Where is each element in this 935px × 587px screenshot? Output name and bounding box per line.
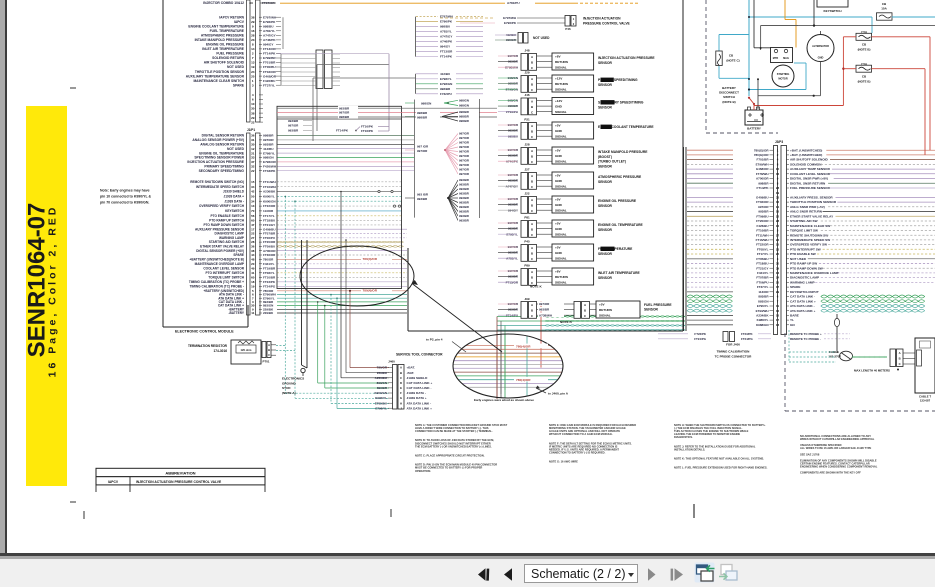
svg-text:B: B bbox=[531, 252, 533, 256]
svg-text:KEYSWITCH: KEYSWITCH bbox=[225, 209, 245, 213]
svg-text:780(4)/OR: 780(4)/OR bbox=[516, 378, 531, 382]
svg-text:F426/BU: F426/BU bbox=[263, 79, 276, 83]
svg-text:NOT USED: NOT USED bbox=[227, 147, 245, 151]
svg-text:36: 36 bbox=[251, 134, 255, 138]
svg-text:OVERSPEED VERIFY SW: OVERSPEED VERIFY SW bbox=[790, 243, 827, 247]
svg-text:+8V: +8V bbox=[555, 270, 562, 274]
svg-text:ANLG SNSR PWR (+5V): ANLG SNSR PWR (+5V) bbox=[790, 205, 825, 209]
svg-text:FT23/PK: FT23/PK bbox=[694, 332, 706, 336]
svg-text:7: 7 bbox=[777, 299, 779, 303]
svg-text:A738/WH: A738/WH bbox=[539, 313, 552, 317]
svg-text:997/OR: 997/OR bbox=[459, 168, 470, 172]
svg-text:GND: GND bbox=[818, 56, 824, 60]
svg-text:+5V: +5V bbox=[555, 222, 562, 226]
svg-text:18: 18 bbox=[776, 323, 780, 327]
svg-text:33: 33 bbox=[249, 1, 253, 5]
svg-text:J1939 DATA -: J1939 DATA - bbox=[224, 199, 244, 203]
svg-text:34: 34 bbox=[251, 185, 255, 189]
svg-text:KEYSWITCH: KEYSWITCH bbox=[824, 9, 842, 13]
svg-text:ALL WIRES TO BE 16 AWG OR LARG: ALL WIRES TO BE 16 AWG OR LARGER SAE J11… bbox=[800, 446, 872, 450]
svg-text:+12V: +12V bbox=[555, 77, 563, 81]
svg-text:9: 9 bbox=[777, 177, 779, 181]
svg-text:MOTOR: MOTOR bbox=[778, 78, 787, 81]
svg-text:1: 1 bbox=[252, 79, 254, 83]
svg-text:+12V: +12V bbox=[555, 99, 563, 103]
svg-text:32: 32 bbox=[251, 165, 255, 169]
svg-text:997/OR: 997/OR bbox=[459, 145, 470, 149]
svg-text:FT16/WH: FT16/WH bbox=[263, 185, 276, 189]
svg-text:SIGNAL: SIGNAL bbox=[555, 66, 567, 70]
svg-text:MAINTENANCE OVERDUE LAMP: MAINTENANCE OVERDUE LAMP bbox=[790, 271, 839, 275]
svg-text:994/GY: 994/GY bbox=[440, 45, 450, 49]
svg-text:56: 56 bbox=[251, 214, 255, 218]
svg-text:27: 27 bbox=[776, 233, 780, 237]
svg-text:B: B bbox=[531, 105, 533, 109]
svg-text:GN: GN bbox=[790, 323, 795, 327]
svg-text:FT23/PK: FT23/PK bbox=[263, 280, 276, 284]
svg-text:SENSOR: SENSOR bbox=[598, 83, 613, 87]
svg-text:GND: GND bbox=[555, 105, 563, 109]
svg-text:SENSOR: SENSOR bbox=[644, 308, 659, 312]
svg-text:4: 4 bbox=[252, 93, 254, 97]
svg-text:41: 41 bbox=[251, 271, 255, 275]
svg-text:MAINTENANCE CLEAR SW: MAINTENANCE CLEAR SW bbox=[790, 224, 830, 228]
svg-text:PTO ENABLE SW: PTO ENABLE SW bbox=[790, 252, 816, 256]
svg-text:B: B bbox=[531, 204, 533, 208]
svg-text:AUXILIARY TEMPERATURE SENSOR: AUXILIARY TEMPERATURE SENSOR bbox=[186, 74, 245, 78]
svg-text:4: 4 bbox=[777, 158, 779, 162]
svg-text:FT02/OR: FT02/OR bbox=[756, 200, 769, 204]
svg-text:pin 10 connected to K990/YL &: pin 10 connected to K990/YL & bbox=[100, 195, 152, 199]
svg-text:NOTE C: PLACE APPROPRIATE CIRC: NOTE C: PLACE APPROPRIATE CIRCUIT PROTEC… bbox=[415, 454, 485, 458]
svg-text:20: 20 bbox=[251, 262, 255, 266]
svg-text:15: 15 bbox=[776, 167, 780, 171]
svg-text:998/BU: 998/BU bbox=[263, 25, 274, 29]
svg-text:SEE SAE J1708: SEE SAE J1708 bbox=[800, 452, 820, 456]
svg-text:INJECTION ACTUATION PRESSURE C: INJECTION ACTUATION PRESSURE CONTROL VAL… bbox=[136, 480, 222, 484]
svg-text:SIGNAL: SIGNAL bbox=[555, 257, 567, 261]
svg-text:SIGNAL: SIGNAL bbox=[555, 185, 567, 189]
svg-text:INTAKE MANIFOLD PRESSURE: INTAKE MANIFOLD PRESSURE bbox=[598, 150, 648, 154]
svg-text:998/GN: 998/GN bbox=[459, 104, 469, 108]
svg-text:A: A bbox=[268, 343, 270, 347]
svg-text:+5V: +5V bbox=[555, 174, 562, 178]
svg-text:PTO RAMP UP SW: PTO RAMP UP SW bbox=[790, 262, 817, 266]
svg-text:K900/YL: K900/YL bbox=[263, 195, 275, 199]
svg-text:DISCONNECT: DISCONNECT bbox=[719, 91, 739, 95]
svg-text:SENSOR: SENSOR bbox=[598, 204, 613, 208]
svg-text:B: B bbox=[899, 357, 901, 361]
svg-text:FT09/BU: FT09/BU bbox=[756, 214, 768, 218]
svg-text:993/BR: 993/BR bbox=[539, 308, 550, 312]
svg-text:E799/WH: E799/WH bbox=[756, 163, 769, 167]
svg-text:FT05/BU: FT05/BU bbox=[756, 257, 768, 261]
svg-text:Early engines were wired as sh: Early engines were wired as shown above bbox=[474, 398, 534, 402]
svg-text:29: 29 bbox=[251, 116, 255, 120]
svg-text:AIR SHUTOFF SOLENOID: AIR SHUTOFF SOLENOID bbox=[790, 158, 829, 162]
svg-text:ANALOG SENSOR RETURN: ANALOG SENSOR RETURN bbox=[200, 143, 244, 147]
svg-text:+BAT.: +BAT. bbox=[407, 366, 416, 370]
svg-text:FT10/BR: FT10/BR bbox=[756, 229, 769, 233]
svg-text:PRIMARY SPEED/TIMING: PRIMARY SPEED/TIMING bbox=[204, 165, 244, 169]
svg-text:997/OR: 997/OR bbox=[459, 172, 470, 176]
svg-text:22: 22 bbox=[251, 169, 255, 173]
svg-text:SENSOR: SENSOR bbox=[598, 61, 613, 65]
svg-text:780(4)/OR: 780(4)/OR bbox=[363, 257, 378, 261]
svg-text:BATTERY: BATTERY bbox=[747, 127, 761, 131]
svg-text:993/BR: 993/BR bbox=[459, 196, 470, 200]
svg-text:COOLANT LEVEL SENSOR: COOLANT LEVEL SENSOR bbox=[790, 172, 831, 176]
svg-text:FT37/YL: FT37/YL bbox=[757, 285, 769, 289]
svg-text:NOTE L: FUEL PRESSURE EXTENSIO: NOTE L: FUEL PRESSURE EXTENSION USED FOR… bbox=[674, 466, 768, 470]
svg-text:+BATTERY (UNSWITCHED)(NOTE B): +BATTERY (UNSWITCHED)(NOTE B) bbox=[190, 257, 244, 261]
svg-text:GND: GND bbox=[555, 203, 563, 207]
svg-text:PTO RAMP DOWN SW: PTO RAMP DOWN SW bbox=[790, 266, 823, 270]
svg-text:F732/PU: F732/PU bbox=[440, 92, 452, 96]
svg-text:INTAKE MANIFOLD PRESSURE: INTAKE MANIFOLD PRESSURE bbox=[195, 38, 245, 42]
svg-text:120 ohm: 120 ohm bbox=[241, 348, 253, 352]
svg-text:FT06/PU: FT06/PU bbox=[756, 281, 768, 285]
svg-text:CONNECTION CAN BE MADE AT THE: CONNECTION CAN BE MADE AT THE STARTER (-… bbox=[415, 429, 493, 433]
svg-text:PT01: PT01 bbox=[263, 360, 270, 364]
svg-text:FUEL PRESSURE: FUEL PRESSURE bbox=[644, 303, 672, 307]
svg-text:TIMING CALIBRATION: TIMING CALIBRATION bbox=[717, 350, 751, 354]
svg-text:993/BR: 993/BR bbox=[459, 183, 470, 187]
svg-text:SECONDARY SPEED/TIMING: SECONDARY SPEED/TIMING bbox=[598, 101, 644, 105]
svg-text:F701/BR: F701/BR bbox=[263, 61, 276, 65]
svg-text:J27: J27 bbox=[524, 168, 529, 172]
svg-text:CONNECTION TO BATTERY (-) IS R: CONNECTION TO BATTERY (-) IS REQUIRED. bbox=[549, 450, 606, 454]
svg-text:FT08/YL: FT08/YL bbox=[757, 247, 769, 251]
svg-text:42: 42 bbox=[251, 190, 255, 194]
svg-text:A: A bbox=[400, 366, 402, 370]
svg-text:ETHER START VALVE RELAY: ETHER START VALVE RELAY bbox=[790, 214, 834, 218]
svg-text:J1939 DATA +: J1939 DATA + bbox=[224, 195, 245, 199]
svg-text:FT11/WH: FT11/WH bbox=[756, 233, 769, 237]
svg-text:997/OR: 997/OR bbox=[459, 159, 470, 163]
svg-text:997/OR: 997/OR bbox=[459, 136, 470, 140]
svg-text:SPARE: SPARE bbox=[790, 285, 800, 289]
svg-text:997/OR: 997/OR bbox=[339, 111, 350, 115]
svg-text:WARNING LAMP: WARNING LAMP bbox=[790, 281, 815, 285]
svg-text:E: E bbox=[400, 386, 402, 390]
svg-text:23: 23 bbox=[251, 38, 255, 42]
svg-text:19: 19 bbox=[251, 65, 255, 69]
svg-text:FT19/BR: FT19/BR bbox=[263, 266, 276, 270]
svg-text:G: G bbox=[400, 396, 402, 400]
svg-text:993/BR: 993/BR bbox=[459, 192, 470, 196]
svg-text:13: 13 bbox=[251, 61, 255, 65]
svg-text:G409/BU: G409/BU bbox=[756, 196, 769, 200]
svg-text:G468/OR: G468/OR bbox=[756, 167, 770, 171]
svg-text:A236/BK: A236/BK bbox=[375, 376, 388, 380]
svg-text:P45: P45 bbox=[524, 240, 530, 244]
svg-text:998/GN: 998/GN bbox=[421, 101, 431, 105]
svg-text:MTR: MTR bbox=[773, 57, 779, 60]
svg-text:16 Page, Color 2, RED: 16 Page, Color 2, RED bbox=[47, 205, 59, 378]
svg-text:REMOTE SHUTDOWN SW: REMOTE SHUTDOWN SW bbox=[790, 233, 828, 237]
svg-text:E796/PK: E796/PK bbox=[263, 20, 276, 24]
svg-text:B: B bbox=[531, 180, 533, 184]
svg-text:FT17/YL: FT17/YL bbox=[263, 214, 275, 218]
svg-text:33: 33 bbox=[776, 196, 780, 200]
svg-text:DIAGNOSTICS.: DIAGNOSTICS. bbox=[674, 435, 693, 439]
svg-text:J99: J99 bbox=[524, 297, 529, 301]
svg-text:TC PROBE CONNECTOR: TC PROBE CONNECTOR bbox=[715, 355, 752, 359]
svg-text:INJECTION ACTUATION PRESSURE: INJECTION ACTUATION PRESSURE bbox=[187, 160, 244, 164]
svg-text:WIRES WITHOUT CATERPILLAR ENGI: WIRES WITHOUT CATERPILLAR ENGINEERING AP… bbox=[800, 437, 875, 441]
svg-text:SOLENOID COMMON: SOLENOID COMMON bbox=[790, 163, 822, 167]
svg-text:997/OR: 997/OR bbox=[459, 154, 470, 158]
svg-text:993/BR: 993/BR bbox=[459, 178, 470, 182]
svg-text:21: 21 bbox=[251, 151, 255, 155]
svg-text:NOTE B: NOTE B bbox=[560, 320, 572, 324]
svg-text:SIGNAL: SIGNAL bbox=[555, 281, 567, 285]
svg-text:E796/PK: E796/PK bbox=[440, 20, 453, 24]
svg-text:997 /OR: 997 /OR bbox=[417, 144, 429, 148]
svg-text:CAT DATA LINK -: CAT DATA LINK - bbox=[790, 295, 815, 299]
svg-text:OPERATION.: OPERATION. bbox=[415, 469, 431, 473]
svg-text:12: 12 bbox=[776, 224, 780, 228]
svg-text:B: B bbox=[531, 83, 533, 87]
svg-text:25: 25 bbox=[251, 74, 255, 78]
svg-text:CAT DATA LINK +: CAT DATA LINK + bbox=[790, 299, 816, 303]
svg-text:48: 48 bbox=[251, 257, 255, 261]
svg-text:C: C bbox=[899, 362, 901, 366]
svg-text:GND: GND bbox=[555, 179, 563, 183]
svg-text:J3/P3: J3/P3 bbox=[775, 140, 784, 144]
svg-text:FT24/PG: FT24/PG bbox=[263, 284, 276, 288]
svg-text:993/BR: 993/BR bbox=[339, 106, 350, 110]
svg-text:MAG: MAG bbox=[783, 57, 789, 60]
svg-text:FT24/PG: FT24/PG bbox=[694, 337, 706, 341]
svg-text:ALTERNATOR: ALTERNATOR bbox=[812, 45, 829, 48]
svg-text:997/OR: 997/OR bbox=[288, 124, 299, 128]
svg-text:23: 23 bbox=[776, 247, 780, 251]
svg-text:(BOOST): (BOOST) bbox=[598, 155, 612, 159]
svg-text:997/OR: 997/OR bbox=[417, 149, 428, 153]
svg-text:2: 2 bbox=[252, 52, 254, 56]
svg-text:18: 18 bbox=[251, 280, 255, 284]
svg-text:893/GN: 893/GN bbox=[758, 299, 768, 303]
svg-text:ABBREVIATION: ABBREVIATION bbox=[165, 471, 195, 476]
svg-text:F426/WH: F426/WH bbox=[263, 165, 277, 169]
svg-text:FT33/PK: FT33/PK bbox=[263, 169, 276, 173]
svg-text:+BAT. (UNSWITCHED): +BAT. (UNSWITCHED) bbox=[790, 148, 822, 152]
svg-text:+5V: +5V bbox=[599, 303, 606, 307]
svg-text:993/BR: 993/BR bbox=[758, 210, 769, 214]
svg-text:19: 19 bbox=[776, 191, 780, 195]
svg-text:113/OR: 113/OR bbox=[263, 209, 274, 213]
svg-text:A746/PK: A746/PK bbox=[440, 40, 453, 44]
svg-text:FT17/YL: FT17/YL bbox=[757, 252, 769, 256]
svg-text:pin 70 connected to K990/GN.: pin 70 connected to K990/GN. bbox=[100, 201, 149, 205]
svg-text:24: 24 bbox=[776, 276, 780, 280]
svg-text:+5V: +5V bbox=[555, 246, 562, 250]
svg-text:IAPCV RETURN: IAPCV RETURN bbox=[219, 15, 244, 19]
svg-text:780/OR: 780/OR bbox=[377, 366, 388, 370]
svg-text:F778/WH: F778/WH bbox=[756, 172, 769, 176]
svg-text:28: 28 bbox=[776, 186, 780, 190]
svg-text:998/BU: 998/BU bbox=[440, 25, 450, 29]
svg-text:INTERMEDIATE SPEED SW: INTERMEDIATE SPEED SW bbox=[790, 238, 830, 242]
svg-text:5: 5 bbox=[777, 229, 779, 233]
svg-text:8: 8 bbox=[252, 43, 254, 47]
svg-text:SENSOR: SENSOR bbox=[598, 252, 613, 256]
svg-text:8: 8 bbox=[777, 181, 779, 185]
svg-text:E798/YL: E798/YL bbox=[440, 77, 452, 81]
svg-text:993/BR: 993/BR bbox=[263, 143, 274, 147]
svg-text:780(G)/OR: 780(G)/OR bbox=[754, 148, 770, 152]
svg-text:SENSOR: SENSOR bbox=[598, 105, 613, 109]
svg-text:SECONDARY SPEED/TIMING: SECONDARY SPEED/TIMING bbox=[199, 169, 245, 173]
svg-text:780/OR: 780/OR bbox=[263, 257, 274, 261]
svg-text:AUXILIARY PRESS. SENSOR: AUXILIARY PRESS. SENSOR bbox=[790, 196, 833, 200]
svg-text:INJECTION ACTUATION: INJECTION ACTUATION bbox=[583, 17, 621, 21]
svg-text:34: 34 bbox=[251, 199, 255, 203]
svg-text:FUEL PRESSURE: FUEL PRESSURE bbox=[216, 52, 244, 56]
svg-text:H: H bbox=[400, 401, 402, 405]
svg-text:25: 25 bbox=[776, 252, 780, 256]
svg-text:ATA DATA LINK +: ATA DATA LINK + bbox=[790, 309, 816, 313]
svg-text:CAT DATA LINK +: CAT DATA LINK + bbox=[407, 381, 433, 385]
svg-text:16: 16 bbox=[251, 29, 255, 33]
svg-text:32: 32 bbox=[776, 309, 780, 313]
svg-text:AUXILIARY TEMP SENSOR: AUXILIARY TEMP SENSOR bbox=[790, 167, 831, 171]
svg-text:FT16/PK: FT16/PK bbox=[361, 129, 374, 133]
svg-text:998/BR: 998/BR bbox=[263, 134, 274, 138]
svg-text:E795/BU: E795/BU bbox=[375, 401, 387, 405]
svg-text:SIGNAL: SIGNAL bbox=[555, 160, 567, 164]
svg-text:22: 22 bbox=[776, 214, 780, 218]
svg-text:13: 13 bbox=[776, 271, 780, 275]
svg-text:780(G)/OR: 780(G)/OR bbox=[754, 153, 770, 157]
svg-text:C: C bbox=[268, 353, 270, 357]
svg-text:RETURN: RETURN bbox=[555, 60, 569, 64]
svg-text:37: 37 bbox=[776, 285, 780, 289]
svg-text:412/BU: 412/BU bbox=[263, 147, 274, 151]
svg-text:ANALOG SENSOR POWER (+5V): ANALOG SENSOR POWER (+5V) bbox=[192, 138, 244, 142]
svg-text:SERVICE TOOL CONNECTOR: SERVICE TOOL CONNECTOR bbox=[396, 352, 443, 356]
svg-text:780(4)/OR: 780(4)/OR bbox=[363, 289, 378, 293]
svg-text:A234/BK: A234/BK bbox=[756, 314, 769, 318]
svg-text:WITHOUT CONNECTION TO A GAIN E: WITHOUT CONNECTION TO A GAIN ECM MODULE. bbox=[549, 432, 613, 436]
svg-text:RETURN: RETURN bbox=[599, 308, 613, 312]
svg-text:FT20/OR: FT20/OR bbox=[756, 219, 769, 223]
svg-text:NOT USED: NOT USED bbox=[533, 36, 550, 40]
svg-text:SENSOR: SENSOR bbox=[598, 180, 613, 184]
svg-text:997/OR: 997/OR bbox=[459, 163, 470, 167]
svg-text:NOT USED: NOT USED bbox=[227, 65, 245, 69]
svg-text:P81: P81 bbox=[524, 216, 530, 220]
svg-text:STARTING AID SW: STARTING AID SW bbox=[790, 219, 818, 223]
svg-text:DIGITAL SNSR PWR (+8V): DIGITAL SNSR PWR (+8V) bbox=[790, 177, 828, 181]
svg-text:F701/BR: F701/BR bbox=[756, 158, 769, 162]
svg-text:70: 70 bbox=[251, 209, 255, 213]
svg-text:FT16/WH: FT16/WH bbox=[756, 238, 769, 242]
svg-text:B: B bbox=[531, 61, 533, 65]
svg-text:14: 14 bbox=[251, 47, 255, 51]
svg-text:K900/YL: K900/YL bbox=[375, 396, 387, 400]
svg-text:+5V: +5V bbox=[555, 198, 562, 202]
svg-text:PRESSURE CONTROL VALVE: PRESSURE CONTROL VALVE bbox=[583, 21, 631, 25]
svg-text:E796/YL: E796/YL bbox=[757, 304, 769, 308]
svg-text:ENGINE OIL PRESSURE: ENGINE OIL PRESSURE bbox=[598, 199, 637, 203]
svg-text:K988/GN: K988/GN bbox=[756, 323, 769, 327]
svg-text:INJECTION ACTUATION PRESSURE: INJECTION ACTUATION PRESSURE bbox=[598, 56, 655, 60]
svg-text:(NOTE B): (NOTE B) bbox=[858, 79, 871, 83]
svg-text:TERMINATION RESISTOR: TERMINATION RESISTOR bbox=[188, 344, 228, 348]
svg-text:29: 29 bbox=[251, 20, 255, 24]
svg-text:A: A bbox=[899, 351, 901, 355]
svg-text:FT00/BU: FT00/BU bbox=[263, 65, 276, 69]
svg-text:OVERSPEED VERIFY SWITCH: OVERSPEED VERIFY SWITCH bbox=[199, 204, 245, 208]
svg-text:PRIMARY SPEED/TIMING: PRIMARY SPEED/TIMING bbox=[598, 78, 638, 82]
svg-text:-BATTERY: -BATTERY bbox=[228, 311, 244, 315]
svg-text:COMPONENTS ARE SHOWN WITH THE: COMPONENTS ARE SHOWN WITH THE KEY OFF bbox=[800, 471, 861, 475]
svg-text:MAX LENGTH 40 METERS: MAX LENGTH 40 METERS bbox=[854, 369, 890, 373]
svg-text:993/BR: 993/BR bbox=[459, 201, 470, 205]
svg-text:to P2, pin 4: to P2, pin 4 bbox=[426, 338, 443, 342]
svg-text:E796/OR: E796/OR bbox=[263, 160, 276, 164]
svg-text:MAINTENANCE OVERDUE LAMP: MAINTENANCE OVERDUE LAMP bbox=[195, 262, 244, 266]
svg-text:STUD: STUD bbox=[282, 386, 291, 390]
svg-text:SENSOR: SENSOR bbox=[598, 276, 613, 280]
svg-text:12: 12 bbox=[251, 147, 255, 151]
svg-text:997/OR: 997/OR bbox=[758, 205, 769, 209]
svg-text:E798/YL: E798/YL bbox=[263, 151, 275, 155]
svg-text:33: 33 bbox=[251, 156, 255, 160]
svg-text:F426/BU: F426/BU bbox=[756, 224, 768, 228]
svg-text:ENGINEERING WHEN CONSIDERING C: ENGINEERING WHEN CONSIDERING COMPONENT R… bbox=[800, 465, 878, 469]
svg-text:FT24/PG: FT24/PG bbox=[741, 337, 753, 341]
svg-text:IAPCV: IAPCV bbox=[108, 480, 119, 484]
svg-text:GND: GND bbox=[555, 154, 563, 158]
svg-text:28: 28 bbox=[251, 34, 255, 38]
svg-text:+BAT. (UNSWITCHED): +BAT. (UNSWITCHED) bbox=[790, 153, 822, 157]
svg-text:INLET AIR TEMPERATURE: INLET AIR TEMPERATURE bbox=[598, 271, 641, 275]
svg-text:FT16/PK: FT16/PK bbox=[361, 125, 374, 129]
svg-text:J1/P1: J1/P1 bbox=[247, 128, 256, 132]
svg-text:COOLANT LEVEL SENSOR: COOLANT LEVEL SENSOR bbox=[203, 266, 244, 270]
svg-text:993/BR: 993/BR bbox=[459, 187, 470, 191]
svg-text:19: 19 bbox=[251, 284, 255, 288]
svg-text:1: 1 bbox=[777, 148, 779, 152]
svg-text:FT37/YL: FT37/YL bbox=[263, 83, 275, 87]
svg-text:993/BR: 993/BR bbox=[288, 128, 299, 132]
svg-text:998/BR: 998/BR bbox=[459, 119, 470, 123]
svg-text:SPARE: SPARE bbox=[233, 83, 245, 87]
svg-text:MAINTENANCE CLEAR SWITCH: MAINTENANCE CLEAR SWITCH bbox=[193, 79, 244, 83]
svg-text:+5V: +5V bbox=[555, 124, 562, 128]
svg-text:13: 13 bbox=[251, 204, 255, 208]
svg-text:28: 28 bbox=[776, 219, 780, 223]
svg-text:B: B bbox=[268, 348, 270, 352]
svg-text:SIGNAL: SIGNAL bbox=[555, 88, 567, 92]
svg-text:998/BR: 998/BR bbox=[440, 87, 451, 91]
svg-text:998/BR: 998/BR bbox=[417, 115, 428, 119]
svg-text:J460: J460 bbox=[388, 359, 395, 363]
svg-text:49: 49 bbox=[251, 266, 255, 270]
svg-text:FUEL TEMPERATURE: FUEL TEMPERATURE bbox=[598, 247, 633, 251]
svg-text:3: 3 bbox=[252, 83, 254, 87]
svg-text:14: 14 bbox=[776, 205, 780, 209]
svg-text:SIGNAL: SIGNAL bbox=[555, 233, 567, 237]
svg-text:(TURBO OUTLET): (TURBO OUTLET) bbox=[598, 160, 626, 164]
svg-text:RETURN: RETURN bbox=[555, 275, 569, 279]
svg-text:60: 60 bbox=[251, 275, 255, 279]
svg-text:CB: CB bbox=[729, 54, 734, 58]
